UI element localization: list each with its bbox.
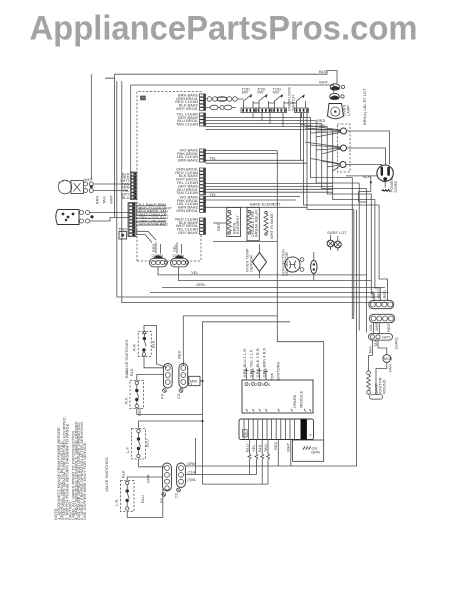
svg-text:RED: RED [382,290,387,299]
spark module pin stubs and labels [242,347,281,381]
svg-text:TOP: TOP [270,373,275,381]
wire: vertical x277 [276,151,278,316]
wire: fan-in to terminal N [305,142,341,154]
wire: RR bottom to C3 [144,356,183,368]
svg-text:SW: SW [257,90,264,95]
svg-text:GRN: GRN [311,449,320,454]
enclosure channel [277,316,323,440]
svg-text:TAN: TAN [373,339,378,347]
wire [183,315,277,317]
fuse symbol lower [330,93,344,99]
svg-text:C1A: C1A [188,470,196,475]
svg-text:P2: P2 [159,497,164,503]
receptacle power cord [363,165,398,193]
wire: lower bundle [206,183,334,192]
svg-text:GRY: GRY [382,334,391,339]
oven temp sensor diamond [245,244,267,278]
svg-text:AppliancePartsPros.com: AppliancePartsPros.com [30,10,418,48]
svg-text:BRN(L) LBL RT LGT: BRN(L) LBL RT LGT [362,88,367,125]
svg-text:BLK: BLK [129,368,134,376]
wire: fan-in to terminal L2 [311,159,341,172]
svg-text:BLK: BLK [370,291,375,299]
terminal L2 [340,162,346,168]
svg-text:BLK: BLK [151,340,156,348]
wire: lamps to P1 strip [90,184,131,221]
svg-text:VALVE SWITCHES: VALVE SWITCHES [124,339,129,374]
svg-text:OVEN: OVEN [152,253,163,258]
svg-text:WHT: WHT [319,80,329,85]
wire [316,121,359,183]
svg-text:CORD: CORD [393,181,398,193]
svg-text:YEL: YEL [191,270,199,275]
P1 connector strip lower cluster [128,203,136,237]
wires below bar strip [244,440,290,485]
svg-text:BLK: BLK [121,470,126,478]
control board connector column P1 stacks [200,94,206,234]
wire [358,183,360,331]
svg-text:ELEMENT: ELEMENT [235,215,240,234]
wire: LR connections [127,477,163,518]
wire [346,165,382,167]
svg-text:LBL: LBL [368,323,373,331]
P1 connector strip upper [130,172,136,200]
svg-text:IGNITORS: IGNITORS [276,361,281,381]
wire [347,148,386,165]
wire [300,113,353,210]
svg-text:C2: C2 [174,492,179,498]
convection fan motor [281,249,304,276]
svg-text:MOT: MOT [384,356,393,361]
svg-text:L.R.: L.R. [114,499,119,506]
indicator light A [327,235,334,250]
svg-text:R.R: R.R [131,344,136,351]
svg-text:BRN BAKE: BRN BAKE [178,158,199,163]
bake ignitor / fan cluster [367,323,399,400]
svg-text:1: 1 [249,382,252,387]
svg-text:3: 3 [262,382,265,387]
valve switch R.R [131,331,155,357]
connector row 2 [368,314,395,332]
connector column pin labels [175,92,199,235]
valve switch R.F [124,368,144,416]
svg-text:TAN: TAN [367,346,372,354]
wire: BLK jog near receptacle [346,176,377,202]
svg-text:BLU: BLU [145,439,150,447]
wire: long right vertical to bottom ground run [186,210,357,466]
svg-text:(1): (1) [243,431,249,436]
svg-text:BRN: BRN [151,243,156,252]
svg-text:RED: RED [273,441,278,450]
svg-text:ORN BROIL: ORN BROIL [176,208,199,213]
wire: y321.8 run [144,326,167,368]
svg-text:TAN CLEAN: TAN CLEAN [176,122,198,127]
fuse symbol upper [330,84,344,90]
wire: left trunk vertical pair going down to bus [117,81,380,297]
wire [203,321,291,323]
svg-text:SW: SW [273,90,280,95]
terminal L1 [341,128,347,134]
svg-text:RED: RED [177,350,182,359]
svg-text:GRN-BRN 4 R.F.: GRN-BRN 4 R.F. [261,347,266,377]
svg-text:YEL: YEL [172,244,177,252]
wire: LF connections [139,421,203,467]
svg-text:RED: RED [216,222,221,231]
oven light 2 [56,210,94,225]
svg-text:VIO DOOR RED: VIO DOOR RED [139,222,169,227]
svg-text:BLU: BLU [244,444,249,452]
wire: steps to connector row 1 [371,194,374,301]
svg-text:WHT IN BAKE: WHT IN BAKE [269,213,274,239]
bake/broil element box [213,202,281,242]
valve switch L.R [114,470,145,511]
svg-text:GRN-BLU 1 L.R.: GRN-BLU 1 L.R. [242,348,247,378]
svg-text:OVEN: OVEN [173,253,184,258]
svg-text:BLK: BLK [319,69,327,74]
wire: fan-in to terminal L1 [301,125,341,138]
wire: column-to-ladder horizontals [206,118,333,130]
connector P3 [160,364,173,400]
ground box [293,440,324,461]
wire: terminal feeds to receptacle [347,131,390,165]
wire: bus horizontals center [162,286,385,288]
svg-text:BLK: BLK [363,174,371,179]
svg-text:GRN: GRN [187,461,196,466]
svg-text:(GRN): (GRN) [394,337,399,349]
svg-text:ROUND: ROUND [382,379,387,394]
svg-text:WHT: WHT [286,442,291,452]
svg-text:BLK: BLK [257,444,262,452]
thermostat box [118,227,127,240]
wire: ignitor outputs [158,267,371,281]
wire: vertical x183.3 [182,316,184,362]
svg-text:(7)BL: (7)BL [187,477,198,482]
svg-text:LAMP: LAMP [346,105,351,116]
svg-text:RED: RED [386,323,391,332]
wire: right ladder verticals [311,118,353,178]
small oval component [311,252,317,280]
connector C3 [176,350,188,399]
svg-text:SPARK: SPARK [292,394,297,408]
wire [333,129,375,199]
svg-text:L.F.: L.F. [125,447,130,453]
wire [322,124,367,189]
svg-text:P3: P3 [160,393,165,399]
svg-text:R.F.: R.F. [124,397,129,404]
svg-text:VALVE SWITCHES: VALVE SWITCHES [104,457,109,492]
svg-text:WHT BROIL: WHT BROIL [176,106,199,111]
svg-text:2: 2 [255,382,258,387]
wire: right long verticals descending [352,178,354,319]
svg-text:GRA: GRA [146,474,151,483]
wire [122,81,388,303]
wire: P2/C2 outputs [185,466,256,475]
svg-text:BAKE ELEMENT: BAKE ELEMENT [250,202,281,207]
svg-text:BREAK RELAY: BREAK RELAY [254,209,259,237]
wire [366,189,368,333]
svg-text:FAN: FAN [388,364,393,372]
oven burner ignitor 2 [171,243,189,267]
wire: RF connections [137,375,203,475]
junction dot [370,181,372,183]
svg-text:WHT: WHT [84,177,94,182]
svg-text:YEL: YEL [209,155,217,160]
svg-text:FAN MOTOR: FAN MOTOR [284,252,289,276]
svg-text:BLU: BLU [140,495,145,503]
surface light 1 [58,177,93,194]
svg-text:SENSOR: SENSOR [249,255,254,272]
terminal N [341,145,347,151]
wire [379,205,387,301]
svg-text:MODULE: MODULE [299,391,304,408]
svg-text:WHT: WHT [376,289,381,299]
svg-text:GRY BAKE: GRY BAKE [178,230,199,235]
connector row 1 [369,289,394,309]
top component row: fuse chain [206,87,309,113]
svg-text:C3: C3 [176,393,181,399]
svg-text:▓▓: ▓▓ [140,95,146,101]
svg-text:TMO: TMO [118,227,127,232]
svg-text:BRN: BRN [95,195,100,204]
wire: vertical x202.5 down [203,322,269,484]
oven lamp [328,104,351,119]
svg-text:GRN-YEL 2 L.F.: GRN-YEL 2 L.F. [248,349,253,378]
svg-text:WHT: WHT [109,194,114,204]
bake ignitor coil [367,371,371,375]
valve switch L.F [125,429,150,460]
wire: left trunk vertical 1 [115,74,131,217]
wire [327,127,371,195]
wire [375,200,380,302]
svg-text:GRN-BLK 3 R.R.: GRN-BLK 3 R.R. [255,347,260,377]
wire: rung to lower right [304,113,380,205]
spark module [242,380,313,413]
svg-text:SW: SW [242,90,249,95]
svg-text:YEL: YEL [251,444,256,452]
wire [150,292,389,294]
wire: outer top border line 2 [131,85,334,93]
M3 box [188,376,204,387]
svg-text:USE COPPER WIRE ONLY FOR SERVI: USE COPPER WIRE ONLY FOR SERVICE. [82,441,87,520]
svg-text:TAN: TAN [263,444,268,452]
wire [206,197,308,208]
wire: lamp feed vertical [90,74,92,179]
svg-text:4: 4 [268,382,271,387]
oven burner ignitor 1 [150,243,168,267]
connector P2 [159,463,171,503]
svg-text:GRN: GRN [196,282,205,287]
indicator light B [327,230,347,251]
wire: outer top border line 1 [105,71,337,85]
svg-text:TAN: TAN [102,196,107,204]
connector C2 [174,463,186,498]
oven fan motor [383,355,391,363]
svg-text:SURF LGT: SURF LGT [327,230,347,235]
terminal bar strip [239,419,314,440]
terminal block dashed box [338,124,351,172]
notes text block [53,416,87,520]
svg-text:BLU: BLU [122,195,130,200]
svg-text:YEL: YEL [209,192,217,197]
dashed control enclosure [137,92,202,262]
svg-text:WHT: WHT [374,321,379,331]
wire: mid horizontals [206,151,308,164]
